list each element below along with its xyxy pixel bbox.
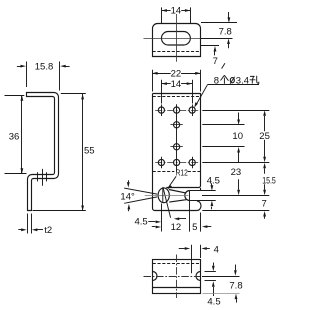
hole C3 xyxy=(189,159,195,165)
svg-text:23: 23 xyxy=(231,167,242,178)
svg-text:4.5: 4.5 xyxy=(207,176,220,187)
dimension 7 top view xyxy=(201,46,220,68)
svg-text:4.5: 4.5 xyxy=(134,216,147,227)
dimension 4.5 upper right xyxy=(207,176,220,210)
bottom view vertical centerline xyxy=(176,255,178,299)
dimension 23 xyxy=(231,167,242,195)
main view banana slot oval xyxy=(158,188,169,203)
dimension 7.8 bottom view xyxy=(202,265,243,303)
main view side slot left end arc xyxy=(185,191,190,201)
dimension 4.5 bottom view xyxy=(205,263,221,308)
top view vertical centerline xyxy=(176,14,178,62)
svg-text:15.8: 15.8 xyxy=(35,62,54,73)
svg-text:7.8: 7.8 xyxy=(229,280,242,291)
hole A2 xyxy=(174,107,180,113)
svg-text:7: 7 xyxy=(262,198,267,209)
main view right edge sliver below corner xyxy=(200,188,202,191)
svg-text:14°: 14° xyxy=(120,192,135,203)
main view hidden line top xyxy=(153,96,201,98)
left view bracket profile xyxy=(27,93,59,211)
dimension 15.5 xyxy=(262,163,276,196)
dimension 7.8 top view xyxy=(201,12,233,48)
bottom view hidden line xyxy=(153,263,200,265)
bend mark on jog xyxy=(38,169,47,186)
dimension 14 top view xyxy=(161,6,190,23)
top view outline xyxy=(153,24,201,57)
main view side slot bottom edge + extension xyxy=(190,200,216,202)
dimension 14 main view xyxy=(161,79,192,104)
top view hidden line xyxy=(153,51,200,53)
main view outline top right xyxy=(153,94,201,188)
svg-text:5: 5 xyxy=(192,222,197,233)
main view side slot top edge + extension xyxy=(190,190,216,192)
bottom view hidden vertical xyxy=(191,245,193,274)
right extension lines xyxy=(202,111,269,211)
svg-text:15.5: 15.5 xyxy=(262,175,276,185)
dimension 15.8 xyxy=(17,62,70,91)
bottom view right notch xyxy=(196,272,201,281)
bottom dimensions of main view xyxy=(134,188,211,233)
svg-text:4: 4 xyxy=(214,245,219,256)
svg-text:36: 36 xyxy=(9,132,20,143)
main view channel upper line xyxy=(169,190,186,194)
main view tab nose arc xyxy=(197,201,201,211)
svg-text:12: 12 xyxy=(171,222,182,233)
main view outline left and bottom xyxy=(153,94,197,211)
top view right extension line (top edge) xyxy=(201,22,237,24)
top view horizontal centerline xyxy=(144,38,201,40)
dimension 14 degrees wedge xyxy=(120,180,188,211)
bottom view left notch xyxy=(153,272,158,281)
hole B1 xyxy=(174,122,180,128)
top view slot xyxy=(161,32,190,46)
main view channel lower line xyxy=(169,200,186,202)
dimension 55 xyxy=(33,94,95,212)
main view hidden line at R12 row xyxy=(153,171,175,173)
R12 leader xyxy=(168,176,176,187)
svg-text:10: 10 xyxy=(232,131,243,142)
svg-text:55: 55 xyxy=(84,145,95,156)
hole C1 xyxy=(158,159,164,165)
dimension 10 xyxy=(232,113,243,164)
dimension 22 xyxy=(152,69,201,92)
hole C2 xyxy=(174,159,180,165)
svg-text:14: 14 xyxy=(171,6,182,17)
svg-text:R12: R12 xyxy=(176,168,188,178)
bottom view outline xyxy=(153,260,201,294)
dimension t2 xyxy=(18,214,52,237)
svg-text:4.5: 4.5 xyxy=(207,296,220,307)
main view tilted 14 deg line xyxy=(163,187,171,218)
svg-text:14: 14 xyxy=(171,79,182,90)
svg-text:7.8: 7.8 xyxy=(219,26,232,37)
svg-text:t2: t2 xyxy=(44,225,52,236)
hole B2 xyxy=(174,144,180,150)
hole A1 xyxy=(158,107,164,113)
dimension 4 bottom view xyxy=(179,245,219,258)
stray slash top right xyxy=(222,63,225,68)
dimension 36 xyxy=(5,95,27,174)
svg-text:7: 7 xyxy=(213,56,218,67)
hole A3 xyxy=(189,107,195,113)
bottom view horizontal centerline xyxy=(144,276,201,278)
dimension 7 right xyxy=(262,198,267,219)
bottom view inner line xyxy=(153,287,200,289)
hole centerlines xyxy=(155,104,198,172)
label 8x d3.4 holes xyxy=(194,75,259,108)
dimension 25 xyxy=(259,110,270,162)
